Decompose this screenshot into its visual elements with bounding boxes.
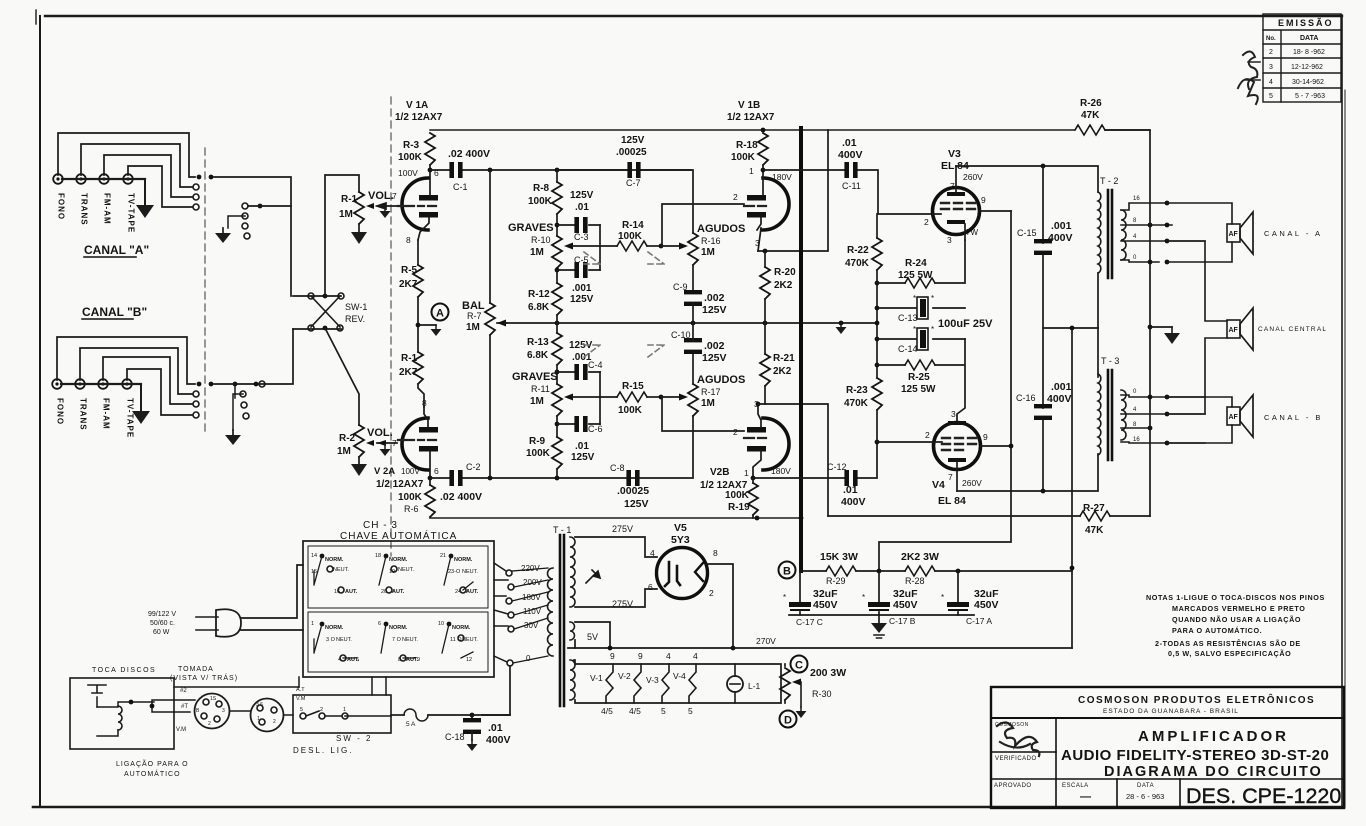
wire HV bottom to V5 pin6 (575, 589, 657, 607)
svg-text:R-1: R-1 (341, 194, 358, 205)
svg-text:1: 1 (749, 166, 754, 176)
logo (997, 722, 1039, 756)
resistor R-12 6.8K (552, 283, 562, 315)
node C circle (791, 656, 808, 673)
resistor R-3 100K (398, 133, 435, 170)
filament bus (574, 660, 781, 703)
resistor R-28 2K2 3W (856, 551, 1072, 586)
speaker CANAL B (1167, 395, 1323, 443)
svg-text:V 1B: V 1B (738, 100, 760, 111)
svg-text:EMISSÃO: EMISSÃO (1278, 18, 1334, 28)
svg-text:R-10: R-10 (531, 235, 551, 245)
svg-text:7: 7 (948, 472, 953, 482)
CH-3 contact group 3 (440, 553, 479, 595)
gang dashes B (584, 345, 664, 357)
svg-text:11 O: 11 O (450, 637, 462, 643)
svg-text:.001: .001 (1051, 381, 1072, 393)
svg-text:R-3: R-3 (403, 140, 420, 151)
svg-text:2K2: 2K2 (774, 280, 793, 291)
svg-text:#2: #2 (180, 688, 187, 694)
svg-text:100K: 100K (731, 152, 756, 163)
svg-text:NORM.: NORM. (454, 557, 473, 563)
svg-text:3: 3 (951, 409, 956, 419)
svg-text:COSMOSON PRODUTOS ELETRÔNICO: COSMOSON PRODUTOS ELETRÔNICOS (1078, 693, 1315, 706)
switch CH-3 CHAVE AUTOMATICA (303, 520, 494, 677)
svg-text:QUANDO NÃO USAR A LIGAÇÃO: QUANDO NÃO USAR A LIGAÇÃO (1172, 615, 1301, 624)
chassis dashed line left (204, 148, 206, 432)
svg-text:8: 8 (406, 235, 411, 245)
svg-text:3: 3 (222, 708, 225, 714)
svg-text:9: 9 (610, 651, 615, 661)
svg-text:*: * (931, 325, 934, 334)
resistor R-27 47K (828, 503, 1150, 536)
capacitor C-7 .00025 125V (557, 169, 691, 171)
speaker CANAL A (1167, 203, 1322, 262)
svg-text:2K2: 2K2 (773, 366, 792, 377)
transformer T-3 (1098, 328, 1205, 460)
svg-text:A: A (436, 308, 444, 320)
svg-text:R-7: R-7 (467, 311, 482, 321)
svg-text:*: * (862, 593, 865, 602)
svg-text:16: 16 (1133, 437, 1140, 443)
svg-text:T - 2: T - 2 (1100, 176, 1118, 186)
pilot lamp L-1 (727, 664, 761, 703)
ground V2A grid (380, 445, 391, 456)
tube V1B triode (727, 100, 792, 251)
svg-text:100K: 100K (618, 231, 643, 242)
CH-3 contact group 5 (378, 621, 420, 663)
svg-text:*: * (913, 325, 916, 334)
svg-text:14: 14 (311, 553, 317, 559)
svg-text:270V: 270V (756, 636, 776, 646)
svg-text:#T: #T (181, 704, 188, 710)
svg-text:180V: 180V (771, 466, 791, 476)
svg-text:125V: 125V (621, 135, 645, 146)
node B circle (779, 562, 796, 579)
tube V2B triode (700, 399, 791, 491)
svg-text:2K7: 2K7 (399, 279, 418, 290)
wire FONO B to selector (57, 337, 195, 384)
T-1 HV secondary (570, 537, 575, 607)
svg-text:200 3W: 200 3W (810, 667, 846, 679)
svg-text:2: 2 (709, 588, 714, 598)
svg-text:DIAGRAMA DO CIRCUITO: DIAGRAMA DO CIRCUITO (1104, 764, 1323, 780)
ground selector A (215, 228, 231, 243)
capacitor C-17 C 32uF 450V (783, 571, 838, 627)
resistor R-29 15K 3W (801, 551, 858, 586)
svg-text:V.M: V.M (296, 696, 306, 702)
svg-text:R-23: R-23 (846, 385, 868, 396)
ground C-18 (467, 740, 478, 751)
svg-text:C-3: C-3 (574, 232, 589, 242)
svg-text:7 O: 7 O (392, 637, 402, 643)
svg-text:23-O: 23-O (448, 569, 461, 575)
svg-text:VOL.: VOL. (368, 190, 394, 202)
ground input B (132, 384, 150, 424)
transformer T-1 (548, 525, 601, 706)
svg-text:C-17 C: C-17 C (796, 617, 823, 627)
resistor R-5 2K7 (399, 240, 423, 297)
wire V4 plate to T-3 (957, 454, 1098, 491)
svg-text:3: 3 (947, 235, 952, 245)
jack TV-TAPE (A) (123, 174, 133, 184)
svg-text:125V: 125V (624, 498, 649, 510)
capacitor C-14 100uF (877, 325, 965, 354)
ground C-17 (871, 615, 887, 638)
svg-text:A.T: A.T (296, 687, 305, 693)
wire selector B out (214, 329, 293, 384)
svg-text:.001: .001 (1051, 220, 1072, 232)
svg-text:TV-TAPE: TV-TAPE (126, 398, 135, 438)
svg-text:V5: V5 (674, 522, 687, 534)
wire tap0 to mains (482, 666, 510, 715)
svg-text:R-28: R-28 (905, 576, 925, 586)
svg-text:7: 7 (392, 191, 397, 201)
svg-text:1M: 1M (339, 209, 353, 220)
chassis dashed line mid (390, 97, 392, 556)
svg-text:2-TODAS AS RESISTÊNCIAS SÃO: 2-TODAS AS RESISTÊNCIAS SÃO DE (1155, 639, 1301, 648)
svg-text:V4: V4 (932, 479, 945, 491)
svg-text:1M: 1M (337, 446, 351, 457)
capacitor C-10 .002 125V (684, 338, 702, 354)
svg-text:LIGAÇÃO PARA O: LIGAÇÃO PARA O (116, 759, 189, 768)
svg-text:AF: AF (1229, 414, 1239, 421)
node D circle (780, 711, 797, 728)
svg-text:60 W: 60 W (153, 629, 170, 636)
wire 5V winding (575, 622, 610, 648)
node R10/R12 (556, 268, 558, 283)
svg-text:V-3: V-3 (646, 675, 659, 685)
wire selector A wiper (248, 205, 291, 207)
capacitor C-18 .01 400V (445, 715, 511, 746)
svg-text:C-13: C-13 (898, 313, 918, 323)
resistor R-23 470K (844, 378, 882, 442)
wire TRANS B to selector (80, 348, 192, 394)
resistor R-30 200 3W (780, 664, 846, 707)
svg-text:NORM.: NORM. (389, 625, 408, 631)
resistor R-19 100K (725, 478, 758, 518)
svg-text:260V: 260V (963, 172, 983, 182)
svg-text:5: 5 (300, 707, 303, 713)
capacitor C-17 B 32uF 450V (862, 571, 918, 626)
node A circle (432, 304, 449, 321)
pickup symbol (88, 685, 106, 693)
node A junction (418, 297, 436, 352)
svg-text:*: * (783, 593, 786, 602)
svg-text:R-19: R-19 (728, 502, 750, 513)
wire V5 pin8 to 270V (706, 564, 733, 648)
svg-text:450V: 450V (974, 599, 999, 611)
svg-text:5 - 7 -963: 5 - 7 -963 (1295, 93, 1325, 100)
svg-text:9: 9 (983, 432, 988, 442)
TOCA DISCOS box (70, 667, 174, 749)
svg-text:50/60 c.: 50/60 c. (150, 620, 175, 627)
svg-text:VERIFICADO: VERIFICADO (995, 756, 1037, 762)
title block (991, 687, 1344, 808)
ground V1A grid (380, 207, 391, 218)
wire C3/C5 junction (599, 225, 601, 270)
svg-text:R-29: R-29 (826, 576, 846, 586)
svg-text:100K: 100K (618, 405, 643, 416)
svg-text:5: 5 (661, 706, 666, 716)
svg-text:4/5: 4/5 (601, 706, 613, 716)
wire V1B cathode feedback (758, 130, 828, 251)
svg-text:16: 16 (1133, 196, 1140, 202)
svg-text:NEUT.: NEUT. (398, 567, 414, 573)
svg-text:1M: 1M (530, 396, 544, 407)
svg-text:1M: 1M (466, 322, 480, 333)
svg-text:.002: .002 (704, 292, 725, 304)
svg-text:V-2: V-2 (618, 671, 631, 681)
connector SW-2 plug (251, 699, 284, 732)
center bus wire (505, 322, 877, 324)
tube V4 EL84 (925, 409, 1011, 507)
jack FONO (A) (53, 174, 63, 184)
svg-text:6: 6 (648, 582, 653, 592)
revision table EMISSAO (1263, 14, 1341, 102)
wire SW1 top to R-1 (325, 175, 359, 296)
svg-text:CANAL "A": CANAL "A" (84, 243, 149, 257)
resistor R-25 125 5W (877, 339, 965, 422)
svg-text:C-6: C-6 (588, 424, 603, 434)
svg-text:R-30: R-30 (812, 689, 832, 699)
svg-text:VOL.: VOL. (367, 427, 393, 439)
svg-text:NEUT.: NEUT. (333, 567, 349, 573)
svg-text:4: 4 (666, 651, 671, 661)
CT arrow (592, 570, 600, 578)
svg-text:125 5W: 125 5W (901, 384, 936, 395)
capacitor C-16 .001 400V (1016, 381, 1072, 491)
svg-text:2: 2 (733, 427, 738, 437)
CH-3 contact group 1 (311, 553, 358, 595)
tube V5 5Y3 (648, 522, 718, 599)
resistor R-26 47K (1075, 98, 1105, 135)
jack TV-TAPE (B) (122, 379, 132, 389)
svg-text:1M: 1M (530, 247, 544, 258)
svg-text:C-17 B: C-17 B (889, 616, 916, 626)
svg-text:D: D (784, 715, 792, 727)
capacitor C-8 .00025 125V (626, 470, 639, 486)
jack FM-AM (B) (98, 379, 108, 389)
svg-text:6: 6 (378, 621, 381, 627)
svg-text:125V: 125V (702, 352, 727, 364)
svg-text:1: 1 (343, 707, 346, 713)
svg-text:5: 5 (1269, 93, 1273, 100)
resistor R-13 6.8K (556, 323, 558, 333)
svg-text:GRAVES: GRAVES (508, 222, 554, 234)
svg-text:TRANS: TRANS (80, 193, 89, 226)
svg-text:R-14: R-14 (622, 220, 644, 231)
capacitor C-12 .01 400V (753, 440, 933, 508)
resistor R-18 100K (731, 128, 768, 170)
svg-text:AGUDOS: AGUDOS (697, 374, 745, 386)
svg-text:T - 1: T - 1 (553, 525, 571, 535)
resistor R-15 100K (600, 396, 617, 398)
svg-text:MARCADOS VERMELHO E PRETO: MARCADOS VERMELHO E PRETO (1172, 604, 1305, 613)
svg-text:.01: .01 (575, 441, 589, 452)
svg-text:V-1: V-1 (590, 673, 603, 683)
svg-text:CANAL "B": CANAL "B" (82, 305, 147, 319)
svg-text:C-15: C-15 (1017, 228, 1037, 238)
wire V1A plate line (490, 170, 693, 233)
svg-text:NEUT.: NEUT. (462, 569, 478, 575)
resistor R-9 100K (552, 437, 562, 469)
svg-text:*: * (941, 593, 944, 602)
svg-text:125V: 125V (571, 452, 595, 463)
svg-text:AUT.: AUT. (466, 589, 479, 595)
wire HV top to V5 pin4 (575, 537, 657, 557)
svg-text:1/2 12AX7: 1/2 12AX7 (727, 112, 775, 123)
ground secondary (1150, 326, 1172, 328)
canal A input group (53, 133, 195, 257)
svg-text:470K: 470K (845, 258, 870, 269)
svg-text:0: 0 (526, 654, 531, 663)
svg-text:3: 3 (1269, 64, 1273, 71)
svg-text:1: 1 (311, 621, 314, 627)
tube V3 EL84 (924, 148, 1011, 245)
speaker CANAL CENTRAL (1167, 241, 1327, 414)
svg-text:47K: 47K (1085, 525, 1104, 536)
ground node A (431, 325, 442, 336)
svg-text:T - 3: T - 3 (1101, 356, 1119, 366)
switch SW-1 REV (293, 293, 367, 331)
svg-text:100K: 100K (725, 490, 750, 501)
svg-text:C-14: C-14 (898, 344, 918, 354)
svg-text:R-25: R-25 (908, 372, 930, 383)
transformer T-2 (1098, 176, 1205, 328)
capacitor C-2 .02 400V (430, 462, 490, 503)
svg-text:125V: 125V (570, 190, 594, 201)
svg-text:GRAVES: GRAVES (512, 371, 558, 383)
connector TOMADA (174, 688, 230, 733)
potentiometer R-10 1M (552, 236, 562, 268)
svg-text:1S: 1S (210, 696, 217, 702)
svg-text:COSMOSON: COSMOSON (995, 722, 1029, 728)
svg-text:400V: 400V (841, 496, 866, 508)
AC plug (148, 565, 303, 637)
svg-text:5: 5 (356, 657, 359, 663)
wire R-26 to T-2 tap (1105, 130, 1150, 225)
ground R-1 (351, 232, 367, 244)
svg-text:AGUDOS: AGUDOS (697, 223, 745, 235)
wire V2A plate line (490, 416, 693, 478)
svg-text:C-16: C-16 (1016, 393, 1036, 403)
potentiometer R-16 AGUDOS 1M (659, 244, 664, 249)
svg-text:C-8: C-8 (610, 463, 625, 473)
wire V2B grid (662, 397, 744, 431)
svg-text:125 5W: 125 5W (898, 270, 933, 281)
potentiometer R-2 VOL 1M (337, 425, 397, 464)
wire C4/C6 junction (599, 372, 601, 424)
svg-text:2: 2 (1269, 49, 1273, 56)
selector contacts B (193, 382, 249, 430)
svg-text:R-9: R-9 (529, 436, 546, 447)
svg-text:AF: AF (1229, 231, 1239, 238)
svg-text:NEUT.: NEUT. (402, 637, 418, 643)
wire TRANS A to selector (81, 144, 192, 187)
svg-text:CANAL - B: CANAL - B (1264, 413, 1323, 422)
svg-text:400V: 400V (1048, 232, 1073, 244)
wire FM-AM A to selector (104, 155, 192, 197)
svg-text:4: 4 (650, 548, 655, 558)
svg-text:R-12: R-12 (528, 289, 550, 300)
capacitor C-3 .01 (557, 224, 600, 226)
svg-text:8: 8 (422, 398, 427, 408)
svg-text:NEUT.: NEUT. (336, 637, 352, 643)
svg-text:260V: 260V (962, 478, 982, 488)
svg-text:—: — (1080, 791, 1091, 803)
wire V1B grid (662, 204, 744, 246)
potentiometer R-1 VOL 1M (339, 190, 397, 232)
tone network channel A (508, 135, 745, 323)
resistor R-14 100K (600, 245, 617, 247)
svg-text:450V: 450V (813, 599, 838, 611)
svg-text:AUTOMÁTICO: AUTOMÁTICO (124, 769, 181, 778)
wire secondary common (1149, 225, 1151, 516)
ground R-2 (351, 464, 367, 476)
svg-text:9: 9 (638, 651, 643, 661)
svg-text:C-4: C-4 (588, 360, 603, 370)
node R11/R9 (556, 416, 558, 437)
svg-text:.02 400V: .02 400V (448, 148, 490, 160)
svg-text:R-21: R-21 (773, 353, 795, 364)
svg-text:100K: 100K (398, 492, 423, 503)
ground R-30 (796, 707, 807, 718)
svg-text:12-12-962: 12-12-962 (1291, 64, 1323, 71)
wire FONO A to selector (58, 133, 195, 177)
svg-text:2: 2 (924, 217, 929, 227)
tube V1A triode (392, 100, 443, 245)
resistor R-8 100K (556, 170, 558, 182)
svg-text:AUDIO FIDELITY-STEREO 3D-ST-20: AUDIO FIDELITY-STEREO 3D-ST-20 (1061, 747, 1329, 764)
svg-text:18- 8 -962: 18- 8 -962 (1293, 49, 1325, 56)
heater V-1 (590, 651, 615, 716)
resistor R-24 125 5W (877, 240, 965, 288)
CH-3 contact group 2 (375, 553, 414, 595)
svg-text:L-1: L-1 (748, 681, 761, 691)
notes text (1146, 593, 1325, 658)
wire TV-TAPE A to selector (128, 166, 192, 207)
tone network channel B (512, 323, 745, 510)
wire V2B cathode feedback (758, 404, 828, 516)
wire TV-TAPE B to selector (127, 369, 192, 415)
svg-text:R-15: R-15 (622, 381, 644, 392)
capacitor C-13 100uF (877, 294, 965, 323)
svg-text:1M: 1M (701, 398, 715, 409)
svg-text:SW - 2: SW - 2 (336, 734, 372, 743)
gang dashes A (584, 252, 664, 264)
switch SW-2 (174, 677, 391, 755)
capacitor C-11 .01 400V (763, 137, 932, 214)
svg-text:R-11: R-11 (531, 384, 550, 394)
heater V-4 (673, 651, 698, 716)
svg-text:30-14-962: 30-14-962 (1292, 79, 1324, 86)
svg-text:FONO: FONO (56, 398, 65, 425)
svg-text:8: 8 (713, 548, 718, 558)
svg-text:100V: 100V (401, 467, 420, 476)
svg-text:C-18: C-18 (445, 732, 465, 742)
svg-text:2: 2 (208, 721, 211, 727)
wire C-17 rail (789, 614, 974, 616)
svg-text:400V: 400V (486, 734, 511, 746)
svg-text:450V: 450V (893, 599, 918, 611)
svg-text:TV-TAPE: TV-TAPE (127, 193, 136, 233)
svg-text:4: 4 (693, 651, 698, 661)
svg-text:V-4: V-4 (673, 671, 686, 681)
svg-text:APROVADO: APROVADO (994, 783, 1032, 789)
svg-text:No.: No. (1266, 36, 1276, 42)
capacitor C-9 .002 125V (684, 290, 702, 306)
